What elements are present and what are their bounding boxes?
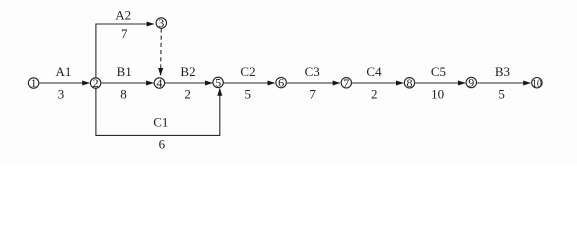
svg-text:A1: A1 xyxy=(56,64,72,79)
svg-text:9: 9 xyxy=(468,76,474,90)
svg-text:B3: B3 xyxy=(495,64,510,79)
svg-text:5: 5 xyxy=(498,87,505,102)
svg-text:B1: B1 xyxy=(117,64,132,79)
svg-text:2: 2 xyxy=(371,87,378,102)
svg-text:3: 3 xyxy=(158,16,164,30)
svg-text:7: 7 xyxy=(343,76,349,90)
svg-text:10: 10 xyxy=(431,87,444,102)
svg-text:2: 2 xyxy=(93,76,99,90)
svg-text:7: 7 xyxy=(309,87,316,102)
svg-text:4: 4 xyxy=(156,76,162,90)
svg-text:B2: B2 xyxy=(180,64,195,79)
svg-text:2: 2 xyxy=(184,87,191,102)
svg-text:C4: C4 xyxy=(366,64,382,79)
svg-text:A2: A2 xyxy=(115,7,131,22)
svg-text:10: 10 xyxy=(532,78,542,90)
svg-text:7: 7 xyxy=(121,26,128,41)
svg-text:C5: C5 xyxy=(431,64,446,79)
svg-text:1: 1 xyxy=(31,76,37,90)
svg-text:3: 3 xyxy=(58,87,65,102)
svg-text:8: 8 xyxy=(120,87,127,102)
svg-text:6: 6 xyxy=(159,136,166,151)
svg-text:C1: C1 xyxy=(153,114,168,129)
svg-text:6: 6 xyxy=(278,76,284,90)
svg-text:C3: C3 xyxy=(305,64,320,79)
svg-text:8: 8 xyxy=(407,76,413,90)
svg-text:C2: C2 xyxy=(240,64,255,79)
svg-text:5: 5 xyxy=(215,76,221,90)
svg-text:5: 5 xyxy=(244,87,251,102)
